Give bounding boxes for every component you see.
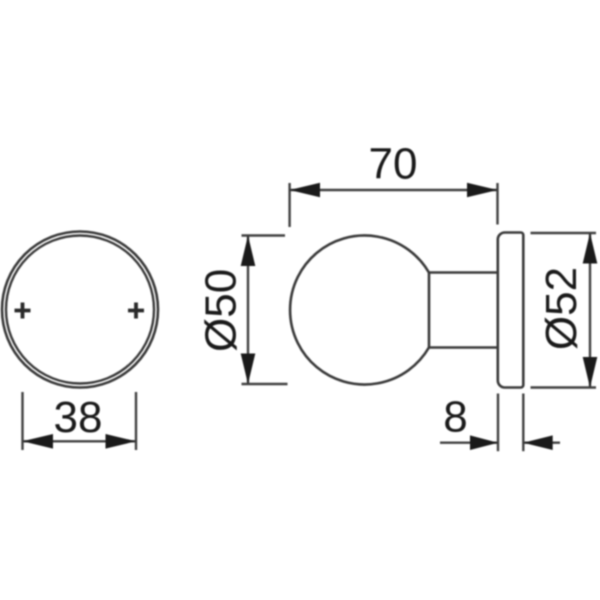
svg-text:38: 38	[54, 393, 103, 442]
svg-text:70: 70	[369, 140, 418, 189]
svg-text:8: 8	[443, 393, 467, 442]
svg-text:Ø50: Ø50	[197, 269, 246, 352]
svg-text:Ø52: Ø52	[537, 267, 586, 350]
